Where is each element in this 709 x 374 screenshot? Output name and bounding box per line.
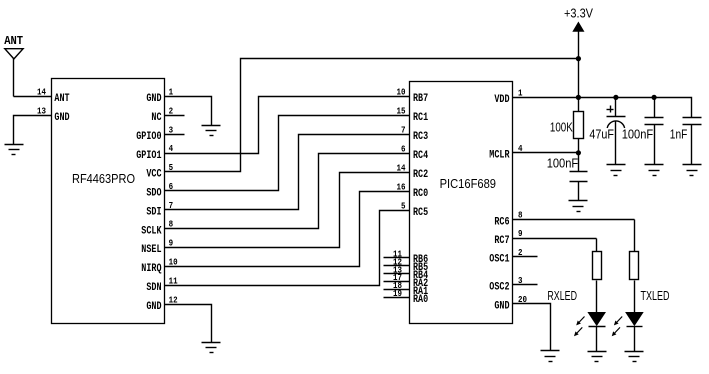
capacitor C4 1nF: [683, 117, 702, 119]
ground U1 pin1: [202, 126, 221, 136]
svg-text:15: 15: [397, 105, 406, 116]
resistor R3: [630, 252, 639, 280]
svg-text:MCLR: MCLR: [489, 150, 510, 162]
svg-text:OSC1: OSC1: [489, 254, 510, 266]
ground C1: [569, 201, 588, 212]
wire net NIRQ-RC0: [165, 192, 410, 267]
LED D1 RXLED: [587, 312, 606, 326]
wire MCLR to R1: [513, 152, 579, 154]
svg-text:GPIO1: GPIO1: [136, 150, 162, 162]
capacitor C3 100nF: [654, 98, 656, 118]
svg-text:VDD: VDD: [494, 94, 509, 106]
svg-text:47uF: 47uF: [589, 127, 614, 141]
svg-text:SDI: SDI: [146, 207, 161, 219]
wire D1 RXLED to ground: [596, 327, 598, 352]
wire U1 pin12 GND to ground: [165, 305, 212, 343]
svg-text:OSC2: OSC2: [489, 281, 509, 293]
svg-text:ANT: ANT: [54, 93, 69, 105]
ground C4: [683, 165, 702, 176]
svg-text:VCC: VCC: [146, 169, 161, 181]
U2 pin 2 OSC1 stub wire: [513, 256, 538, 258]
svg-text:11: 11: [169, 275, 178, 286]
wire R1 top: [578, 98, 580, 112]
junction VCC/+3.3V: [576, 56, 581, 61]
svg-text:NSEL: NSEL: [141, 244, 162, 256]
svg-text:RC5: RC5: [413, 207, 428, 219]
ground C3: [645, 165, 664, 176]
TXLED emission arrows: [617, 317, 622, 323]
svg-text:TXLED: TXLED: [641, 288, 670, 303]
svg-text:GND: GND: [146, 301, 161, 313]
U2 pin 11 stub wire: [384, 257, 410, 259]
C2 plus sign: [607, 109, 614, 111]
wire net GPIO1-RB7: [165, 97, 410, 154]
wire R1 bottom: [578, 139, 580, 153]
wire VDD rail: [513, 98, 692, 118]
wire U2 pin20 GND to ground: [513, 304, 551, 351]
svg-text:1nF: 1nF: [670, 127, 688, 141]
U2 pin 17 stub wire: [384, 281, 410, 283]
wire U2 to R3: [634, 220, 636, 252]
resistor R2: [593, 252, 602, 280]
U2 pin 3 OSC2 stub wire: [513, 284, 538, 286]
svg-text:PIC16F689: PIC16F689: [440, 176, 496, 191]
RXLED emission arrows: [579, 317, 584, 323]
U2 pin 19 stub wire: [384, 297, 410, 299]
junction rail/C2: [613, 95, 618, 100]
ground D2 TXLED: [625, 352, 644, 362]
svg-text:12: 12: [169, 294, 178, 305]
svg-text:RXLED: RXLED: [547, 288, 577, 303]
U2 pin 18 stub wire: [384, 289, 410, 291]
wire R2 to D1 RXLED: [596, 281, 598, 313]
svg-text:GND: GND: [146, 93, 161, 105]
junction rail/R1: [576, 95, 581, 100]
svg-text:GND: GND: [494, 301, 509, 313]
svg-text:RC6: RC6: [494, 216, 509, 228]
wire U1 pin13 to ground: [14, 116, 52, 145]
svg-text:100nF: 100nF: [622, 127, 654, 141]
capacitor C2 47uF electrolytic: [615, 98, 617, 117]
ground C2: [607, 165, 626, 176]
svg-text:4: 4: [169, 143, 174, 154]
capacitor C1 100nF (MCLR): [578, 153, 580, 172]
wire +3.3V vertical: [578, 32, 580, 98]
wire net VCC to +3.3V rail: [165, 59, 579, 172]
svg-text:RC0: RC0: [413, 188, 428, 200]
svg-text:NIRQ: NIRQ: [141, 263, 162, 275]
wire U2 RC7 to RXLED branch: [513, 238, 597, 240]
svg-text:NC: NC: [151, 112, 161, 124]
svg-text:RC7: RC7: [494, 235, 509, 247]
svg-text:RC1: RC1: [413, 112, 428, 124]
ground U2 GND: [541, 351, 560, 362]
ground D1 RXLED: [588, 352, 607, 362]
ground antenna GND: [5, 145, 24, 155]
junction rail/C3: [652, 95, 657, 100]
svg-text:3: 3: [169, 124, 174, 135]
svg-text:+3.3V: +3.3V: [564, 5, 593, 20]
wire net SDN-RC5: [165, 211, 410, 286]
IC U1 RF4463PRO body: [52, 79, 165, 324]
svg-text:RC2: RC2: [413, 169, 428, 181]
wire net SDO-RC1: [165, 116, 410, 191]
wire ANT to U1 pin14: [14, 96, 52, 98]
wire D2 TXLED to ground: [634, 327, 636, 352]
U2 pin 12 stub wire: [384, 265, 410, 267]
IC U2 PIC16F689 body: [410, 82, 513, 324]
svg-text:RC3: RC3: [413, 131, 428, 143]
svg-text:100K: 100K: [550, 120, 573, 134]
svg-text:ANT: ANT: [4, 34, 23, 48]
svg-text:RA0: RA0: [413, 294, 428, 306]
wire R3 to D2 TXLED: [634, 281, 636, 313]
U1 pin3 GPIO0 stub wire: [165, 134, 185, 136]
wire net SCLK-RC4: [165, 154, 410, 229]
antenna E1: [5, 49, 23, 59]
resistor R1 100K: [574, 112, 584, 139]
ground U1 pin12: [202, 343, 221, 353]
power symbol +3.3V arrow: [573, 23, 583, 32]
svg-text:RC4: RC4: [413, 150, 428, 162]
svg-text:10: 10: [397, 86, 406, 97]
U1 pin2 NC stub wire: [165, 115, 185, 117]
junction MCLR/R1/C1: [576, 150, 581, 155]
LED D2 TXLED: [625, 312, 644, 326]
svg-text:SCLK: SCLK: [141, 225, 162, 237]
wire net SDI-RC3: [165, 135, 410, 210]
svg-text:GPIO0: GPIO0: [136, 131, 161, 143]
svg-text:7: 7: [401, 124, 406, 135]
svg-text:RF4463PRO: RF4463PRO: [72, 171, 135, 186]
svg-text:RB7: RB7: [413, 93, 428, 105]
svg-text:SDO: SDO: [146, 188, 161, 200]
U2 pin 13 stub wire: [384, 273, 410, 275]
svg-text:100nF: 100nF: [547, 156, 579, 170]
wire net NSEL-RC2: [165, 173, 410, 248]
wire U2 to R2: [596, 239, 598, 252]
wire U1 pin1 GND to ground: [165, 97, 212, 126]
svg-text:9: 9: [518, 228, 523, 239]
wire U2 RC6 to TXLED branch: [513, 219, 635, 221]
svg-text:SDN: SDN: [146, 282, 161, 294]
svg-text:GND: GND: [54, 112, 69, 124]
